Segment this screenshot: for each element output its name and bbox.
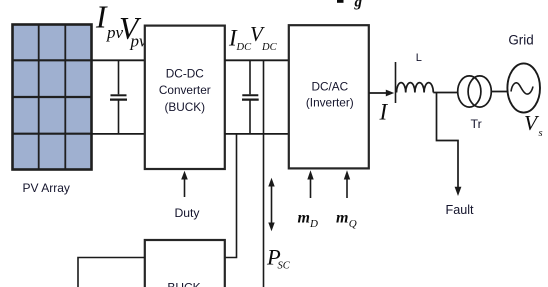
mQ arrow [344, 170, 350, 198]
svg-text:BUCK: BUCK [167, 280, 200, 287]
transformer Tr [458, 76, 492, 107]
Psc double arrow [268, 178, 274, 231]
svg-text:s: s [539, 128, 543, 139]
svg-text:L: L [416, 52, 422, 64]
current sensor bar [395, 62, 397, 103]
svg-text:Q: Q [349, 218, 357, 230]
wire vertical DC link tap down to bottom edge [263, 60, 265, 287]
wire top bus PV to DC-DC [92, 59, 146, 61]
svg-text:DC-DC: DC-DC [166, 67, 204, 81]
svg-text:DC/AC: DC/AC [311, 79, 348, 93]
label IDC VDC [228, 22, 278, 53]
label Psc [266, 245, 291, 272]
svg-text:Grid: Grid [508, 33, 533, 48]
duty arrow [181, 171, 188, 197]
label mD [298, 210, 319, 231]
capacitor C2 [242, 60, 259, 134]
svg-text:SC: SC [278, 261, 291, 272]
wire top bus DC-DC to inverter [225, 59, 289, 61]
buck controller box U3 (cut off at bottom) [145, 240, 225, 287]
fault branch wire [437, 93, 459, 189]
svg-text:D: D [309, 218, 318, 230]
svg-text:I: I [379, 100, 389, 125]
DC/AC inverter box U2 [289, 25, 369, 168]
PV array [13, 25, 92, 170]
label Vs [524, 111, 543, 139]
wire bottom bus PV to DC-DC [92, 133, 146, 135]
svg-text:Fault: Fault [446, 203, 474, 217]
svg-text:m: m [336, 210, 348, 227]
svg-text:DC: DC [261, 42, 278, 53]
label Ipv Vpv [95, 0, 147, 51]
DC-DC converter box U1 [145, 26, 225, 169]
svg-text:g: g [354, 0, 363, 11]
svg-text:Tr: Tr [471, 117, 482, 131]
svg-text:m: m [298, 210, 310, 227]
wire left input to buck controller [78, 258, 145, 287]
svg-text:PV Array: PV Array [23, 181, 70, 195]
fault arrow [455, 187, 462, 196]
svg-text:Converter: Converter [159, 83, 211, 97]
inductor L [397, 83, 434, 93]
svg-text:(Inverter): (Inverter) [306, 95, 354, 109]
mD arrow [307, 170, 313, 198]
grid source Vs [507, 63, 540, 112]
wire inverter output with arrow [369, 90, 394, 97]
label Pg fragment (cut off at top) [337, 0, 363, 11]
wire bottom bus DC-DC to inverter [225, 133, 289, 135]
label mQ [336, 210, 357, 231]
capacitor C1 [110, 60, 127, 134]
svg-text:Duty: Duty [174, 206, 200, 220]
wire transformer to grid [491, 91, 507, 93]
wire bottom bus down to buck controller [225, 134, 237, 258]
wire inductor to transformer [433, 92, 458, 94]
svg-text:(BUCK): (BUCK) [164, 100, 205, 114]
